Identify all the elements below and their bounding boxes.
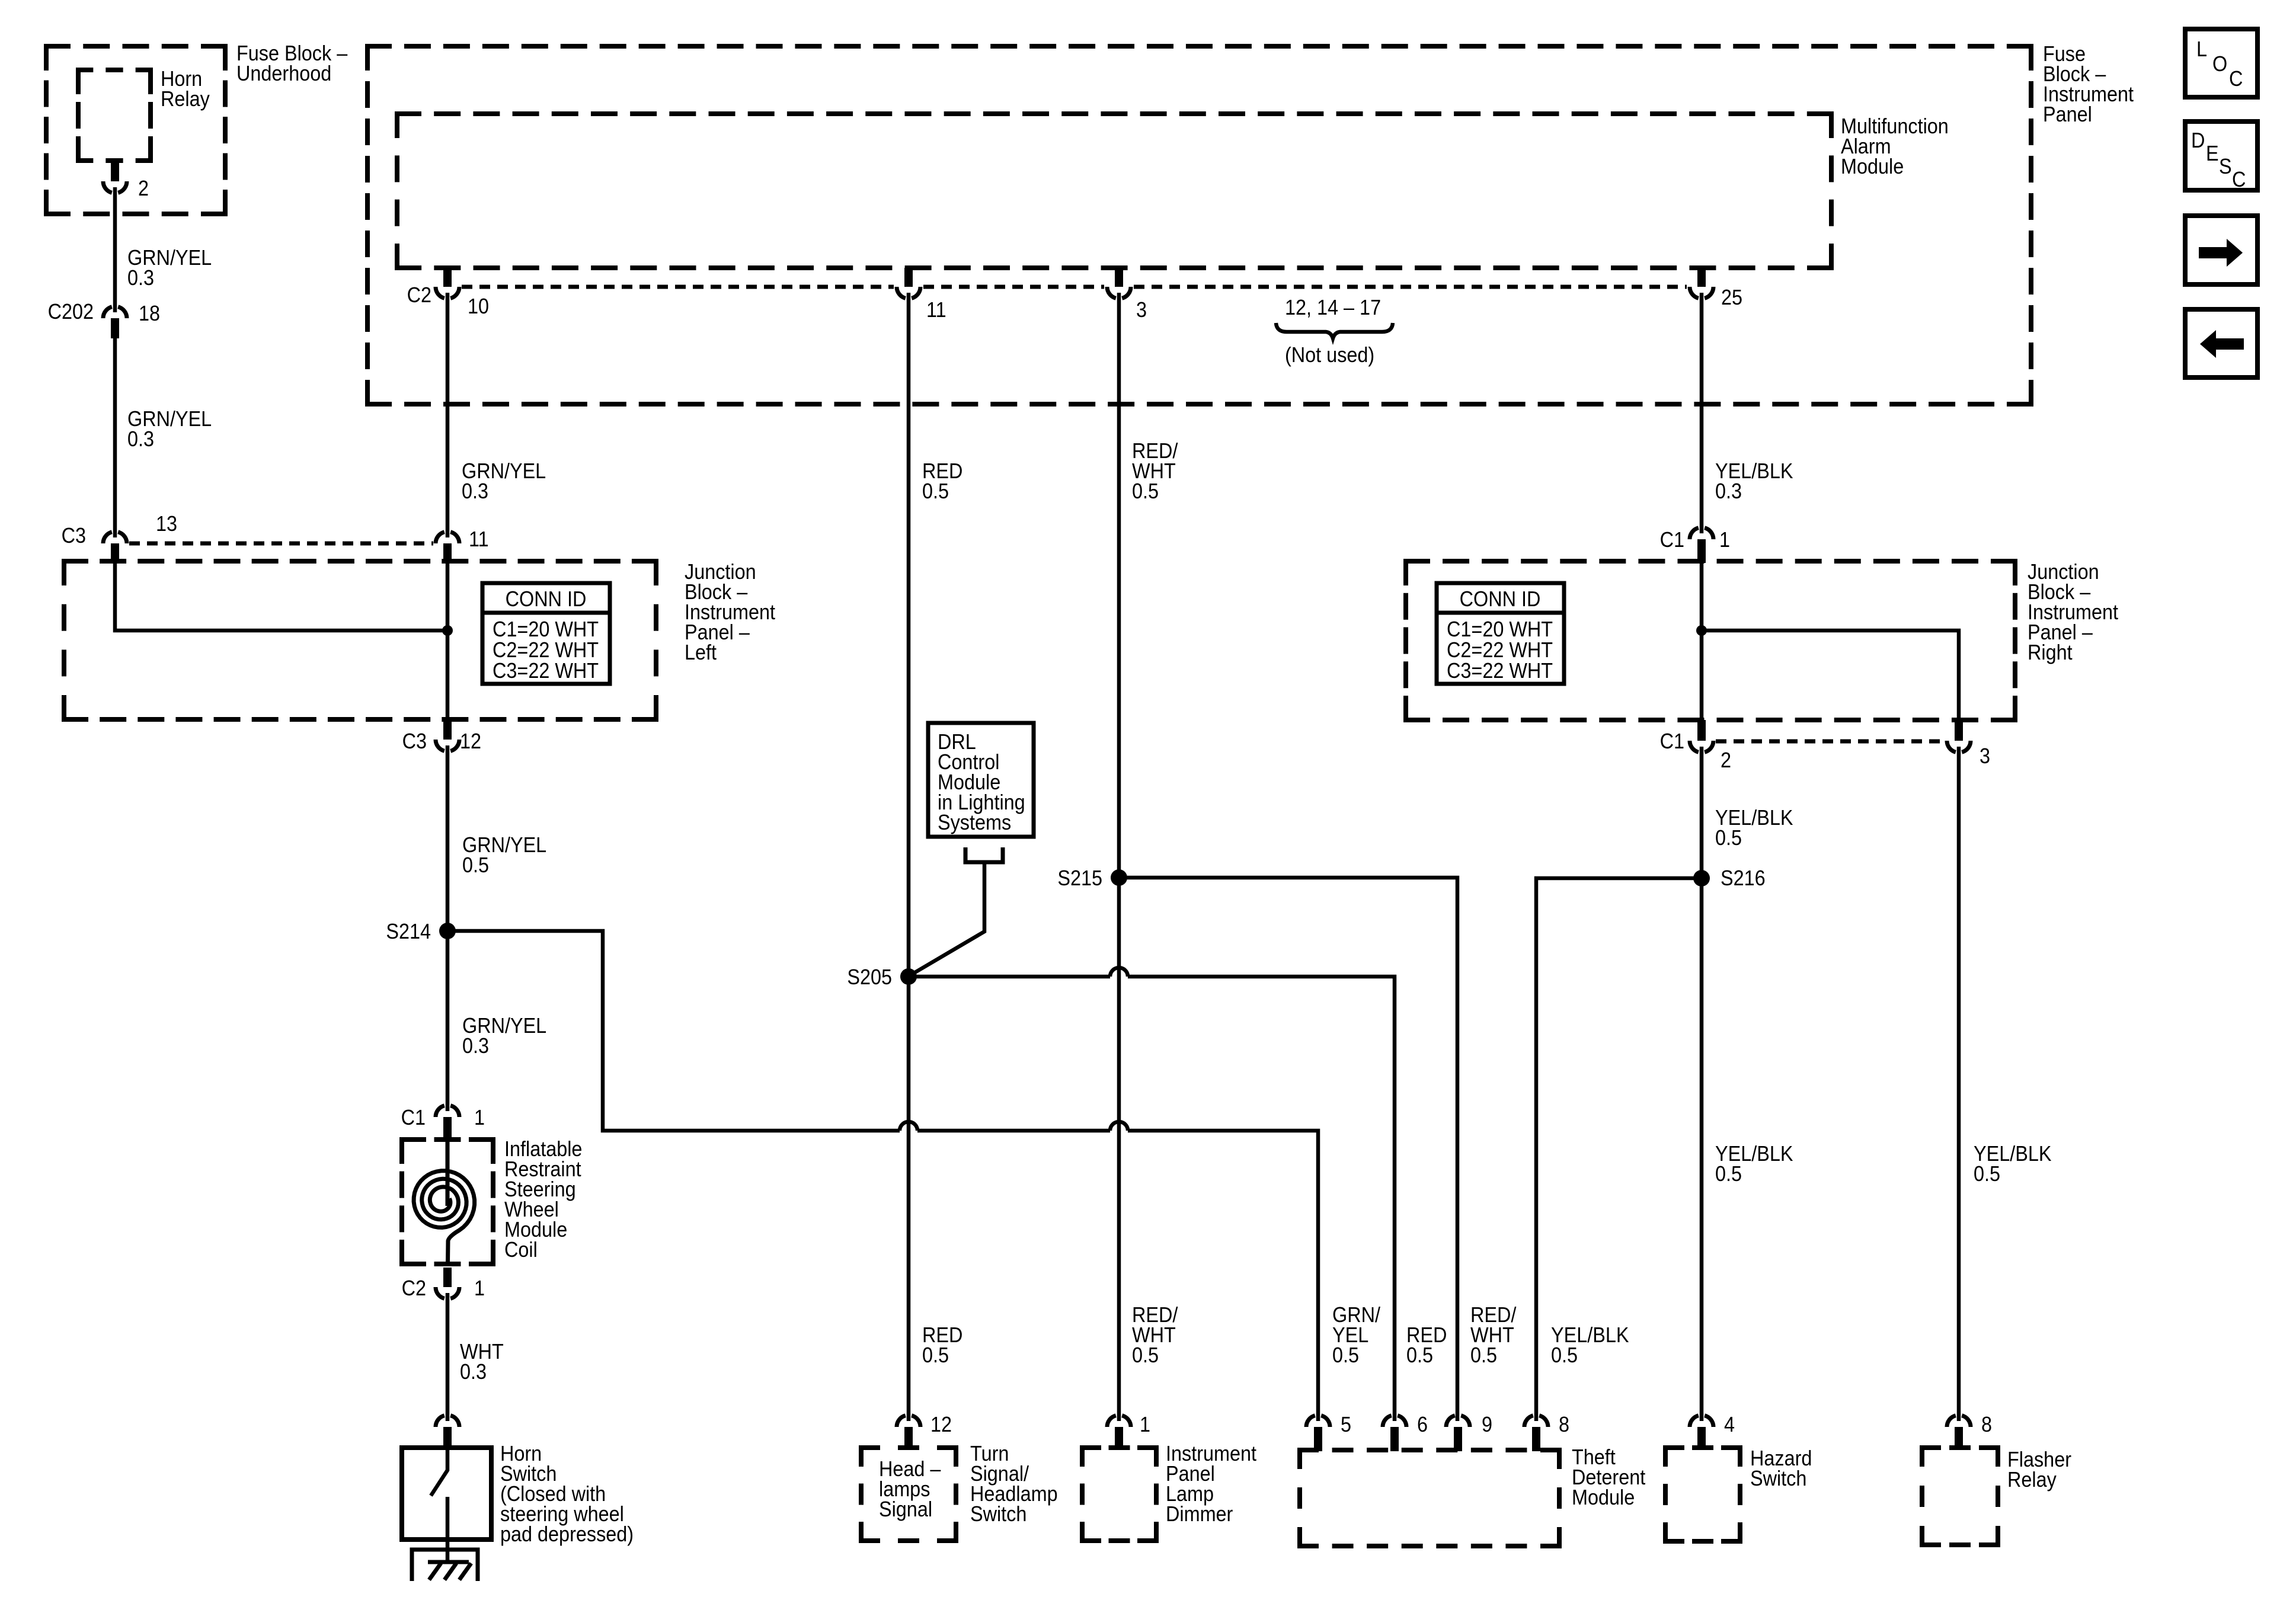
svg-text:0.5: 0.5 [1406, 1343, 1433, 1367]
svg-text:2: 2 [1721, 748, 1731, 772]
svg-text:0.5: 0.5 [922, 479, 949, 503]
LOC box [2185, 29, 2257, 97]
drl pointer [911, 862, 984, 975]
svg-text:0.3: 0.3 [1715, 479, 1742, 503]
svg-text:10: 10 [468, 295, 489, 318]
svg-text:0.5: 0.5 [1470, 1343, 1497, 1367]
splice S215 [1111, 869, 1127, 886]
junction pin 3 [1955, 720, 1963, 741]
svg-text:C3: C3 [62, 524, 86, 548]
svg-text:0.3: 0.3 [462, 1034, 489, 1058]
svg-text:C3=22 WHT: C3=22 WHT [493, 659, 599, 683]
junction node left [442, 625, 453, 636]
conn id table right [1437, 583, 1564, 684]
junction block left box [62, 559, 658, 564]
svg-text:Signal: Signal [879, 1497, 932, 1521]
svg-text:E: E [2206, 142, 2219, 165]
svg-text:Module: Module [1841, 155, 1904, 178]
theft pin 5 [1306, 1416, 1330, 1427]
multifunction alarm module box [395, 111, 1834, 116]
wire horn relay to C202 [113, 187, 117, 312]
svg-text:C: C [2229, 67, 2243, 91]
wire junction right vertical [1700, 563, 1704, 720]
wire RED/WHT pin3 down [1117, 293, 1121, 878]
junction pin 11 [436, 532, 459, 543]
splice S216 [1693, 870, 1710, 886]
svg-text:O: O [2212, 52, 2227, 76]
connector C202 pin 18 [103, 307, 127, 318]
wire YEL/BLK pin25 down [1700, 293, 1704, 533]
theft deterrent module box [1297, 1448, 1562, 1452]
svg-text:0.5: 0.5 [922, 1343, 949, 1367]
svg-text:Left: Left [685, 641, 717, 664]
coil pin C2 1 [443, 1268, 452, 1287]
svg-text:pad depressed): pad depressed) [500, 1522, 634, 1546]
svg-text:5: 5 [1341, 1413, 1351, 1436]
junction pin C1 2 [1697, 720, 1706, 741]
dotted link C3-13 to 11 [129, 542, 433, 546]
svg-text:(Not used): (Not used) [1285, 343, 1374, 367]
svg-text:12: 12 [930, 1413, 952, 1436]
svg-text:13: 13 [156, 512, 177, 536]
theft pin 8 [1524, 1416, 1548, 1427]
svg-text:0.5: 0.5 [1715, 826, 1742, 850]
svg-text:1: 1 [474, 1106, 485, 1129]
horn relay pin 2 [111, 161, 119, 181]
svg-text:8: 8 [1559, 1413, 1569, 1436]
svg-text:0.5: 0.5 [1551, 1343, 1578, 1367]
junction pin C3 12 [443, 719, 452, 740]
steering wheel coil [414, 1141, 475, 1264]
svg-text:S216: S216 [1721, 866, 1766, 890]
svg-text:1: 1 [1140, 1413, 1150, 1436]
svg-text:9: 9 [1482, 1413, 1492, 1436]
alarm pin C2 10 [443, 268, 452, 287]
dimmer pin 1 [1107, 1416, 1131, 1427]
instrument panel lamp dimmer box [1080, 1445, 1159, 1450]
svg-text:8: 8 [1981, 1413, 1992, 1436]
svg-text:0.5: 0.5 [1132, 1343, 1159, 1367]
junction pin C3 13 [103, 532, 127, 543]
wire RED pin11 down [907, 293, 911, 977]
svg-text:4: 4 [1724, 1413, 1735, 1436]
wire S214 to C1 [446, 931, 450, 1111]
svg-text:D: D [2191, 129, 2205, 152]
fuse block underhood box [44, 44, 228, 49]
svg-text:C1: C1 [1660, 528, 1684, 552]
inflatable restraint box [399, 1137, 495, 1142]
wire S214 branch [447, 931, 1318, 1421]
DESC box [2185, 121, 2257, 190]
ground [412, 1550, 478, 1581]
svg-text:S205: S205 [847, 965, 892, 989]
svg-text:Relay: Relay [161, 87, 210, 111]
wire C202 to C3 [113, 338, 117, 537]
svg-text:C: C [2232, 168, 2246, 191]
svg-text:Switch: Switch [970, 1502, 1027, 1526]
svg-text:C2=22 WHT: C2=22 WHT [493, 638, 599, 662]
wire inside junction left [115, 563, 447, 631]
svg-text:2: 2 [138, 177, 149, 200]
alarm pin 25 [1697, 268, 1706, 287]
svg-text:25: 25 [1721, 286, 1742, 309]
wire junction right branch [1702, 631, 1959, 720]
alarm pins dotted bus [462, 285, 894, 289]
wire S205 branch [909, 968, 1395, 1421]
fuse block instrument panel box [365, 44, 2033, 49]
dotted link C1-2 to 3 [1716, 740, 1945, 744]
svg-text:C202: C202 [48, 300, 94, 324]
svg-text:Underhood: Underhood [236, 62, 331, 85]
flasher pin 8 [1947, 1416, 1971, 1427]
wire junction pin11 through block [446, 563, 450, 719]
svg-text:0.3: 0.3 [460, 1360, 487, 1384]
splice S205 [900, 968, 917, 985]
junction node right [1696, 625, 1707, 636]
svg-text:Coil: Coil [504, 1238, 538, 1262]
prev-page arrow box [2185, 309, 2257, 377]
wire junction3 to flasher [1957, 747, 1961, 1421]
svg-text:0.3: 0.3 [127, 266, 154, 290]
theft pin 9 [1446, 1416, 1470, 1427]
svg-text:0.3: 0.3 [462, 479, 488, 503]
svg-text:Relay: Relay [2007, 1468, 2057, 1492]
svg-text:C1=20 WHT: C1=20 WHT [493, 617, 599, 641]
horn switch box [402, 1448, 491, 1540]
svg-text:11: 11 [469, 527, 489, 551]
svg-text:CONN ID: CONN ID [506, 587, 587, 611]
svg-text:CONN ID: CONN ID [1460, 587, 1541, 611]
svg-text:12, 14 – 17: 12, 14 – 17 [1285, 296, 1381, 319]
alarm pin 11 [904, 268, 913, 287]
wire S216 to hazard [1700, 878, 1704, 1421]
conn id table left [482, 583, 610, 684]
next-page arrow box [2185, 216, 2257, 284]
wire S215 branch [1119, 878, 1457, 1421]
wire GRN/YEL pin10 to junction [446, 293, 450, 537]
wire C1-2 to S216 [1700, 747, 1704, 878]
wire C3-12 to S214 [446, 745, 450, 931]
horn switch pin [436, 1416, 459, 1427]
svg-text:11: 11 [926, 298, 946, 322]
hazard pin 4 [1690, 1416, 1713, 1427]
svg-text:18: 18 [139, 302, 160, 325]
junction pin C1 1 [1690, 528, 1713, 539]
svg-text:3: 3 [1136, 298, 1147, 322]
flasher relay box [1920, 1445, 2000, 1450]
svg-text:C1: C1 [401, 1106, 426, 1129]
svg-text:C1: C1 [1660, 729, 1684, 753]
wire S216 branch [1536, 878, 1702, 1421]
junction block right box [1403, 559, 2017, 564]
svg-text:L: L [2196, 37, 2207, 61]
not used brace [1276, 323, 1393, 338]
splice S214 [439, 923, 456, 939]
svg-text:C1=20 WHT: C1=20 WHT [1447, 617, 1553, 641]
headlamps pin 12 [897, 1416, 920, 1427]
svg-text:Module: Module [1572, 1486, 1635, 1509]
svg-text:0.5: 0.5 [462, 853, 489, 877]
svg-text:0.5: 0.5 [1132, 479, 1159, 503]
svg-text:0.5: 0.5 [1715, 1162, 1742, 1186]
svg-text:C2: C2 [407, 283, 431, 307]
svg-text:C2: C2 [402, 1276, 426, 1300]
svg-text:Switch: Switch [1750, 1467, 1806, 1490]
svg-text:C2=22 WHT: C2=22 WHT [1447, 638, 1553, 662]
wire RED/WHT S215 down [1117, 878, 1121, 1421]
svg-text:3: 3 [1980, 744, 1990, 768]
svg-text:0.3: 0.3 [127, 427, 154, 451]
svg-text:S215: S215 [1057, 866, 1102, 890]
svg-text:Systems: Systems [938, 811, 1011, 834]
svg-text:C3: C3 [402, 729, 427, 753]
svg-text:Panel: Panel [2043, 103, 2092, 126]
theft pin 6 [1383, 1416, 1406, 1427]
alarm pin 3 [1115, 268, 1123, 287]
wire RED S205 to headlamps [907, 977, 911, 1421]
horn relay box [76, 68, 153, 72]
svg-text:S214: S214 [386, 920, 431, 943]
horn switch contacts [431, 1448, 447, 1562]
svg-text:12: 12 [460, 729, 481, 753]
drl bracket [965, 847, 1003, 862]
svg-text:0.5: 0.5 [1332, 1343, 1359, 1367]
svg-text:S: S [2219, 155, 2232, 178]
svg-text:C3=22 WHT: C3=22 WHT [1447, 659, 1553, 683]
svg-text:0.5: 0.5 [1974, 1162, 2000, 1186]
svg-text:6: 6 [1417, 1413, 1428, 1436]
hazard switch box [1663, 1445, 1742, 1450]
svg-text:Right: Right [2028, 641, 2073, 664]
svg-text:1: 1 [474, 1276, 485, 1300]
wire C2 to horn switch [446, 1293, 450, 1421]
svg-text:1: 1 [1719, 528, 1730, 552]
drl control module box [928, 723, 1034, 837]
headlamps signal box [859, 1445, 958, 1450]
svg-text:Dimmer: Dimmer [1166, 1502, 1233, 1526]
coil pin C1 1 [436, 1106, 459, 1117]
